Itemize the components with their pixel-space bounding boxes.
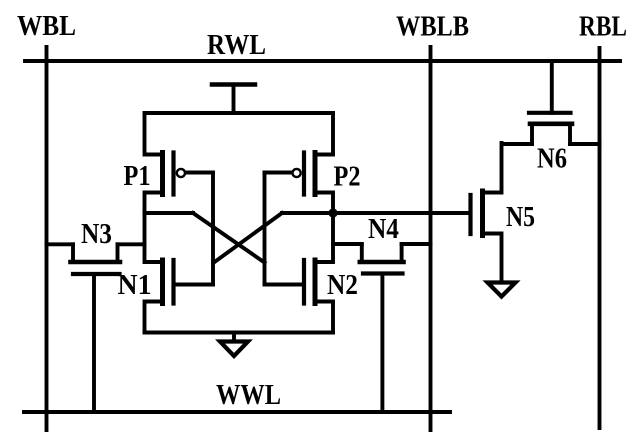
svg-text:N1: N1 <box>118 269 152 301</box>
svg-text:N4: N4 <box>368 213 399 245</box>
svg-text:RWL: RWL <box>207 29 266 61</box>
wire node B to N5 gate <box>333 211 470 215</box>
svg-text:N3: N3 <box>81 218 112 250</box>
wire WBL vertical line <box>45 47 49 430</box>
transistor N2 <box>265 213 334 333</box>
node B junction dot <box>328 208 337 217</box>
svg-text:WWL: WWL <box>216 379 281 411</box>
transistor N1 <box>145 213 214 333</box>
wire node B horizontal to dot <box>282 211 333 215</box>
wire RWL horizontal rail <box>25 59 620 63</box>
transistor N4 <box>333 244 431 412</box>
ground symbol (cell VSS) <box>220 333 248 357</box>
wire WBLB vertical line <box>429 47 433 430</box>
transistor P1 <box>145 113 214 213</box>
wire cross-couple diagonal from node B to left gate <box>215 213 283 262</box>
wire cross-couple diagonal from node A to right gate <box>193 213 265 263</box>
svg-text:RBL: RBL <box>579 11 627 43</box>
transistor N6 <box>502 61 600 144</box>
svg-text:N2: N2 <box>327 269 358 301</box>
wire left gate vertical (gate net of P1/N1) <box>211 173 215 285</box>
svg-text:N6: N6 <box>537 143 567 175</box>
wire WWL horizontal rail <box>24 410 450 414</box>
VDD supply symbol <box>212 85 255 114</box>
svg-text:P2: P2 <box>334 161 361 193</box>
wire RBL vertical line <box>598 48 602 428</box>
wire VSS rail of inverter pair <box>145 331 334 335</box>
transistor N3 <box>47 244 145 412</box>
svg-text:P1: P1 <box>124 160 151 192</box>
wire right gate vertical (gate net of P2/N2) <box>263 173 267 285</box>
transistor P2 <box>265 113 334 213</box>
svg-text:WBL: WBL <box>17 10 76 42</box>
wire VDD rail of inverter pair <box>145 111 334 115</box>
ground symbol (N5 source) <box>488 283 516 297</box>
wire node A horizontal <box>145 211 194 215</box>
svg-text:WBLB: WBLB <box>396 11 469 43</box>
svg-text:N5: N5 <box>506 201 535 233</box>
transistor N5 <box>471 143 502 283</box>
